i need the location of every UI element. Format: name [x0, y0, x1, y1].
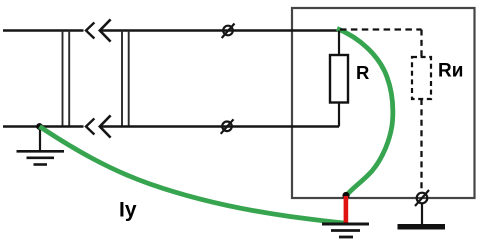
- wire: branch from top wire down to resistor R: [338, 31, 340, 57]
- cable marker (circle-slash) on bottom wire: [221, 119, 234, 134]
- svg-text:R: R: [356, 62, 369, 83]
- wire: branch from resistor R down to bottom wire: [338, 103, 340, 127]
- connector arrow small, top wire: [86, 23, 94, 37]
- wire top line, left segment: [3, 29, 84, 31]
- resistor Ri (insulation resistance, dashed): [412, 57, 431, 99]
- connector half X2 (double vertical lines): [122, 31, 129, 128]
- dashed wire: down to resistor Ri: [420, 30, 422, 58]
- red grounding link: [344, 196, 349, 223]
- dashed wire: top node to Ri branch: [340, 28, 422, 30]
- connector arrow small, bottom wire: [86, 119, 94, 133]
- ground (left): [17, 127, 65, 165]
- svg-text:Iy: Iy: [119, 199, 137, 222]
- green current path Iy: right bulge from centre dot up to top node: [337, 29, 393, 195]
- wire top line, right segment: [100, 29, 339, 31]
- connector arrow large, top wire: [100, 20, 110, 40]
- green current path Iy: big swoop from left ground to centre ground: [40, 127, 345, 224]
- connector arrow large, bottom wire: [100, 116, 110, 136]
- resistor R: [330, 55, 348, 103]
- connector half X1 (double vertical lines): [63, 31, 70, 128]
- wire bottom line, left segment: [3, 125, 84, 127]
- node: junction dot on screen bottom edge: [342, 192, 349, 199]
- svg-text:Rи: Rи: [438, 61, 463, 82]
- cable marker (circle-slash) on top wire: [222, 24, 235, 39]
- wire bottom line, right segment: [100, 125, 339, 127]
- dashed wire: resistor Ri down to screen bottom: [420, 99, 422, 193]
- earth bar (right ground): [398, 224, 446, 230]
- cable marker (circle-slash) at screen bottom right: [415, 190, 429, 206]
- node: junction dot on bottom wire: [36, 123, 43, 130]
- ground (centre, under red link): [322, 224, 369, 237]
- enclosure box (screen): [292, 8, 475, 198]
- wire: from circle-slash down to earth bar: [421, 203, 423, 224]
